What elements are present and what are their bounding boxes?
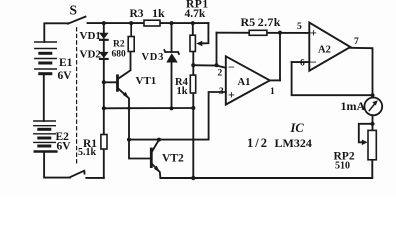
svg-text:−: − [310, 55, 317, 69]
svg-text:VT2: VT2 [162, 153, 184, 165]
svg-text:A1: A1 [238, 77, 251, 88]
svg-text:VD1: VD1 [80, 30, 101, 42]
svg-text:2.7k: 2.7k [258, 15, 281, 29]
svg-text:VD2: VD2 [80, 49, 102, 61]
svg-text:6: 6 [300, 59, 305, 69]
svg-text:7: 7 [354, 37, 359, 47]
svg-text:6V: 6V [57, 141, 72, 153]
svg-text:1k: 1k [177, 86, 188, 97]
svg-text:6V: 6V [58, 70, 73, 82]
svg-text:VD3: VD3 [142, 52, 165, 63]
svg-text:R2: R2 [113, 40, 125, 50]
svg-text:IC: IC [290, 121, 305, 135]
svg-text:R3: R3 [130, 8, 144, 20]
svg-text:LM324: LM324 [275, 136, 312, 150]
svg-text:510: 510 [335, 161, 350, 172]
svg-text:R5: R5 [241, 15, 256, 29]
svg-text:680: 680 [112, 50, 127, 60]
svg-text:1/2: 1/2 [247, 136, 269, 150]
svg-text:1: 1 [270, 87, 275, 97]
svg-text:VT1: VT1 [136, 75, 157, 87]
svg-text:2: 2 [218, 68, 223, 78]
svg-text:A2: A2 [318, 45, 331, 56]
svg-text:1mA: 1mA [341, 99, 366, 113]
svg-text:+: + [310, 26, 317, 40]
svg-text:E1: E1 [59, 57, 73, 69]
svg-text:+: + [228, 88, 235, 102]
svg-text:5.1k: 5.1k [78, 147, 97, 158]
svg-text:1k: 1k [152, 6, 165, 20]
svg-text:−: − [228, 60, 235, 74]
svg-text:4.7k: 4.7k [185, 8, 206, 20]
svg-text:3: 3 [219, 87, 224, 97]
svg-text:S: S [70, 2, 78, 17]
svg-text:5: 5 [297, 22, 302, 32]
